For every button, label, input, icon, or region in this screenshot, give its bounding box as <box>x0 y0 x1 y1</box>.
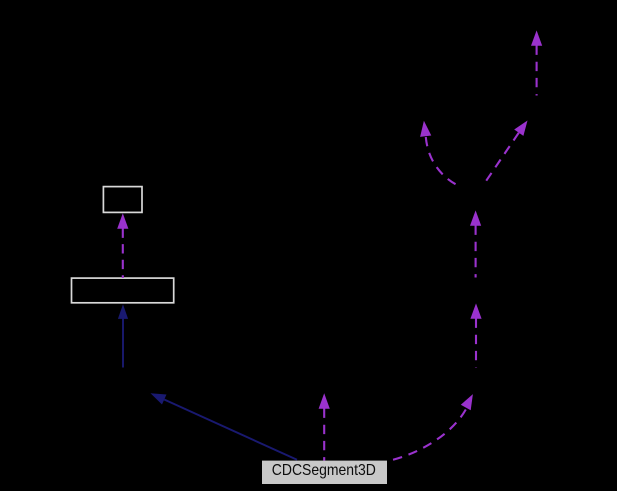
edge P4: purple dashed arrow (vertical, lower right column) <box>470 303 481 367</box>
node box A (empty class box, top-left) <box>103 187 142 213</box>
edge P2: purple dashed arrow from CDCSegment3D straight up <box>319 393 330 460</box>
edge P6: purple dashed curved arrow (left branch of V) <box>420 121 458 186</box>
svg-text:CDCSegment3D: CDCSegment3D <box>272 462 376 479</box>
edge B2: blue solid arrow (diagonal) from CDCSegment3D up-left <box>151 393 298 460</box>
edge P7: purple dashed straight arrow (right branch of V) <box>483 121 528 186</box>
node CDCSegment3D (selected node, grey fill) <box>262 461 387 484</box>
node box B (empty wide class box, left) <box>72 278 174 303</box>
edge P3: purple dashed curved arrow from CDCSegment3D right side up-right <box>389 394 473 461</box>
edge P8: purple dashed arrow (top right, vertical) <box>531 30 542 95</box>
edge P1: purple dashed arrow from box B up to box A <box>117 213 128 278</box>
edge B1: blue solid arrow (vertical) up to box B <box>118 304 128 367</box>
edge P5: purple dashed arrow (vertical, middle right column) <box>470 210 481 277</box>
